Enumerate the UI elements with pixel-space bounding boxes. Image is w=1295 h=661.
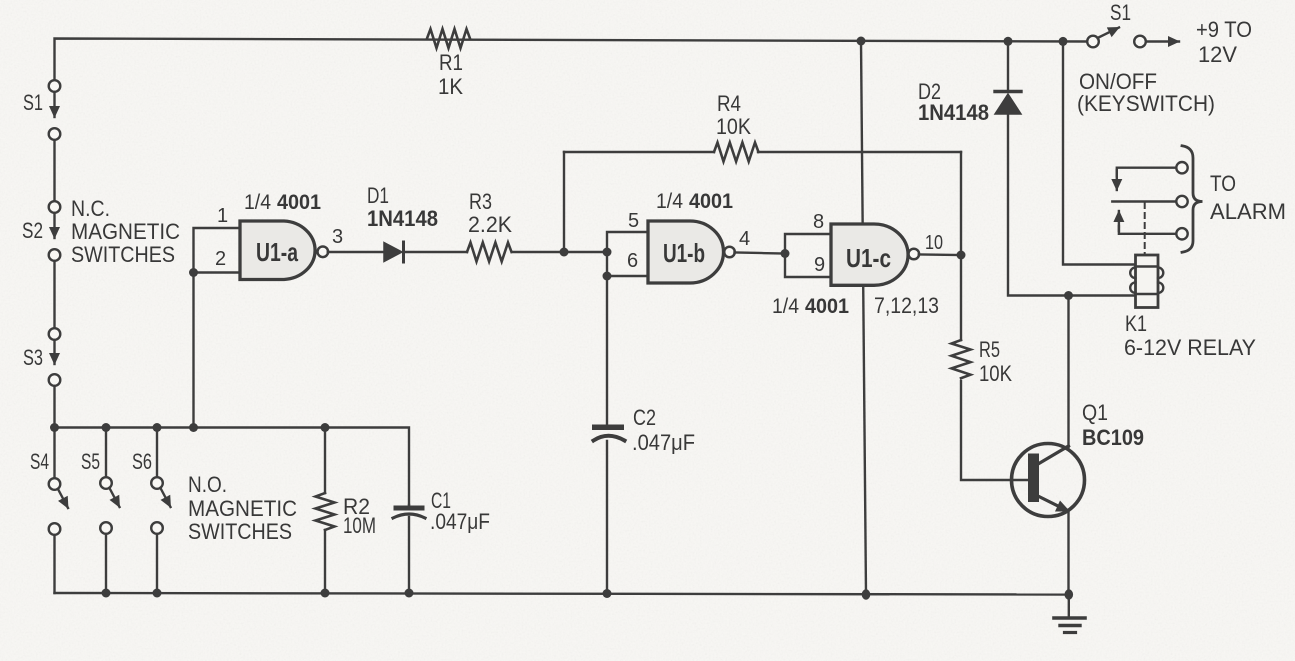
junction U1-c output / R4 / R5 bbox=[957, 251, 966, 260]
switch S3 (N.C. magnetic) bbox=[49, 328, 61, 340]
svg-text:12V: 12V bbox=[1198, 42, 1237, 67]
wire U1-b input bracket pins 5,6 bbox=[607, 232, 648, 276]
wire left vertical S2-S3 bbox=[53, 261, 55, 328]
svg-text:MAGNETIC: MAGNETIC bbox=[71, 219, 180, 244]
junction relay coil bottom / Q1 collector bbox=[1064, 291, 1073, 300]
switch S1 (N.C. magnetic) bbox=[49, 80, 61, 92]
svg-text:MAGNETIC: MAGNETIC bbox=[188, 496, 297, 521]
junction top rail / relay feed bbox=[1059, 37, 1068, 46]
switch S1 keyswitch bbox=[1087, 36, 1099, 48]
svg-text:9: 9 bbox=[814, 254, 825, 276]
svg-text:R1: R1 bbox=[439, 50, 463, 75]
gate U1-c body bbox=[831, 224, 908, 285]
junction N.O. bus / S5 bbox=[102, 423, 111, 432]
capacitor C1 bbox=[408, 505, 410, 507]
capacitor C2 bbox=[592, 425, 624, 431]
svg-text:D1: D1 bbox=[367, 183, 389, 208]
svg-text:6: 6 bbox=[627, 250, 638, 272]
wire R3 to U1-b input bbox=[512, 251, 607, 253]
junction emitter / bottom rail bbox=[1065, 589, 1074, 599]
svg-text:10M: 10M bbox=[343, 513, 376, 538]
wire Q1 emitter down to ground rail bbox=[1067, 510, 1069, 595]
wire S4 down to bottom rail bbox=[53, 535, 55, 593]
junction U1-b pin6 / C2 bbox=[603, 272, 612, 281]
wire pin6 node down to C2 bbox=[606, 276, 608, 424]
wire U1-a output to D1 bbox=[328, 251, 384, 253]
resistor R1 bbox=[427, 29, 470, 48]
resistor R2 bbox=[324, 428, 326, 494]
svg-text:1K: 1K bbox=[438, 74, 463, 99]
svg-text:2: 2 bbox=[215, 248, 226, 270]
switch S5 (N.O. magnetic) bbox=[105, 428, 107, 478]
junction bottom rail / R2 bbox=[321, 589, 330, 598]
svg-text:R4: R4 bbox=[717, 91, 741, 116]
svg-text:S4: S4 bbox=[30, 449, 49, 474]
wire U1-c output to R5 node bbox=[919, 253, 961, 256]
svg-text:K1: K1 bbox=[1125, 311, 1147, 336]
junction U1-a pin2 bbox=[189, 268, 198, 277]
wire Q1 collector up to relay node bbox=[1067, 296, 1069, 448]
svg-text:ALARM: ALARM bbox=[1210, 199, 1286, 224]
wire U1-a input bracket pins 1,2 bbox=[194, 228, 241, 273]
gate U1-c output bubble pin10 bbox=[909, 249, 920, 260]
svg-text:U1-b: U1-b bbox=[663, 238, 705, 268]
diode D2 1N4148 bbox=[1007, 41, 1009, 91]
switch S6 (N.O. magnetic) bbox=[156, 428, 158, 478]
junction top rail / VDD vertical bbox=[857, 37, 866, 46]
wire R5 to Q1 base bbox=[961, 381, 1028, 480]
svg-text:S3: S3 bbox=[23, 345, 43, 370]
svg-text:1N4148: 1N4148 bbox=[367, 206, 438, 231]
junction bottom rail / C1 bbox=[405, 589, 414, 598]
wire U1-b output to U1-c input bbox=[735, 253, 786, 254]
svg-text:4001: 4001 bbox=[689, 190, 733, 213]
svg-text:10: 10 bbox=[925, 232, 943, 254]
svg-text:7,12,13: 7,12,13 bbox=[874, 293, 939, 318]
svg-text:6-12V RELAY: 6-12V RELAY bbox=[1124, 335, 1256, 360]
gate U1-a body bbox=[240, 221, 315, 280]
svg-text:3: 3 bbox=[332, 226, 343, 248]
junction N.O. bus / R2 bbox=[321, 423, 330, 432]
svg-text:U1-a: U1-a bbox=[256, 237, 298, 267]
svg-text:1: 1 bbox=[217, 205, 228, 227]
transistor Q1 BC109 bbox=[1012, 444, 1085, 517]
svg-text:TO: TO bbox=[1210, 171, 1236, 196]
svg-text:+9 TO: +9 TO bbox=[1196, 17, 1252, 42]
svg-text:.047μF: .047μF bbox=[430, 509, 490, 534]
wire top rail from left corner to keyswitch bbox=[55, 39, 1088, 87]
svg-text:4001: 4001 bbox=[277, 191, 321, 214]
svg-text:(KEYSWITCH): (KEYSWITCH) bbox=[1077, 91, 1215, 116]
svg-text:S1: S1 bbox=[23, 90, 43, 115]
junction N.O. bus / left vertical bbox=[50, 423, 59, 432]
svg-text:1N4148: 1N4148 bbox=[918, 100, 989, 125]
wire left vertical S3 to N.O. bus to S4 bbox=[53, 386, 55, 478]
wire U1-c input bracket pins 8,9 bbox=[785, 234, 831, 277]
svg-text:R3: R3 bbox=[469, 189, 492, 214]
wire left vertical S1-S2 bbox=[53, 140, 55, 201]
node N.O. bus bbox=[55, 428, 410, 506]
junction bottom rail / C2 bbox=[603, 589, 612, 598]
diode D1 1N4148 bbox=[384, 243, 402, 262]
wire R4 top run bbox=[564, 151, 961, 153]
svg-text:C2: C2 bbox=[633, 405, 656, 430]
svg-text:4001: 4001 bbox=[805, 295, 849, 318]
gate U1-a output bubble pin3 bbox=[318, 247, 329, 258]
relay K1 coil bbox=[1136, 255, 1159, 308]
relay contact N.O. throw bbox=[1119, 226, 1176, 234]
ground bbox=[1068, 595, 1070, 618]
gate U1-b body bbox=[648, 221, 724, 283]
junction R4 left leg bbox=[560, 248, 569, 257]
svg-text:N.C.: N.C. bbox=[71, 196, 110, 221]
svg-text:8: 8 bbox=[813, 211, 824, 233]
wire D1 to R3 bbox=[405, 251, 467, 253]
resistor R5 bbox=[960, 255, 962, 340]
svg-text:S1: S1 bbox=[1110, 0, 1131, 25]
svg-text:10K: 10K bbox=[716, 114, 751, 139]
wire U1-a pin2 down to N.O. bus bbox=[192, 273, 194, 428]
svg-text:5: 5 bbox=[628, 210, 639, 232]
svg-text:S6: S6 bbox=[132, 449, 152, 474]
resistor R3 bbox=[467, 243, 511, 262]
wire keyswitch output arrow to +9V bbox=[1147, 40, 1180, 42]
svg-text:SWITCHES: SWITCHES bbox=[71, 242, 175, 267]
svg-text:1/4: 1/4 bbox=[772, 295, 799, 318]
wire VDD vertical through U1-c bbox=[861, 41, 866, 595]
wire bottom rail bbox=[55, 593, 1070, 595]
wire relay feed from top rail to coil top bbox=[1063, 41, 1136, 264]
svg-text:4: 4 bbox=[739, 228, 750, 250]
svg-text:R5: R5 bbox=[979, 337, 1000, 362]
junction bottom rail / VDD vertical bbox=[862, 589, 871, 599]
svg-text:Q1: Q1 bbox=[1082, 400, 1108, 425]
wire D2 down to relay coil bottom bbox=[1008, 114, 1136, 296]
relay actuator dashed link bbox=[1144, 203, 1146, 255]
brace TO ALARM bbox=[1182, 146, 1203, 253]
junction N.O. bus / S6 bbox=[153, 423, 162, 432]
svg-text:BC109: BC109 bbox=[1082, 425, 1144, 450]
relay contact N.C. throw bbox=[1117, 168, 1176, 176]
junction top rail / D2 bbox=[1004, 37, 1013, 46]
wire S6 down to bottom rail bbox=[156, 534, 158, 593]
switch S2 (N.C. magnetic) bbox=[49, 201, 61, 213]
resistor R4 bbox=[714, 143, 758, 162]
junction bottom rail / S5 bbox=[102, 589, 111, 598]
svg-text:2.2K: 2.2K bbox=[468, 212, 512, 237]
junction U1-b input bbox=[603, 248, 612, 257]
svg-text:S2: S2 bbox=[22, 218, 43, 243]
svg-text:SWITCHES: SWITCHES bbox=[188, 519, 292, 544]
gate U1-b output bubble pin4 bbox=[724, 247, 735, 258]
svg-text:U1-c: U1-c bbox=[846, 243, 891, 273]
svg-text:10K: 10K bbox=[979, 361, 1012, 386]
svg-text:1/4: 1/4 bbox=[244, 191, 271, 214]
wire R4 left leg bbox=[563, 152, 565, 252]
junction U1-c input bbox=[781, 249, 790, 258]
svg-text:.047μF: .047μF bbox=[632, 430, 695, 455]
relay contact common pole bbox=[1112, 200, 1175, 202]
svg-text:S5: S5 bbox=[81, 449, 100, 474]
junction N.O. bus / U1-a pin2 wire bbox=[189, 423, 198, 432]
svg-text:1/4: 1/4 bbox=[656, 190, 683, 213]
wire R4 right leg bbox=[960, 152, 962, 255]
switch S4 (N.O. magnetic) bbox=[49, 478, 61, 490]
wire S5 down to bottom rail bbox=[105, 534, 107, 593]
junction bottom rail / S6 bbox=[153, 589, 162, 598]
svg-text:N.O.: N.O. bbox=[188, 472, 227, 497]
